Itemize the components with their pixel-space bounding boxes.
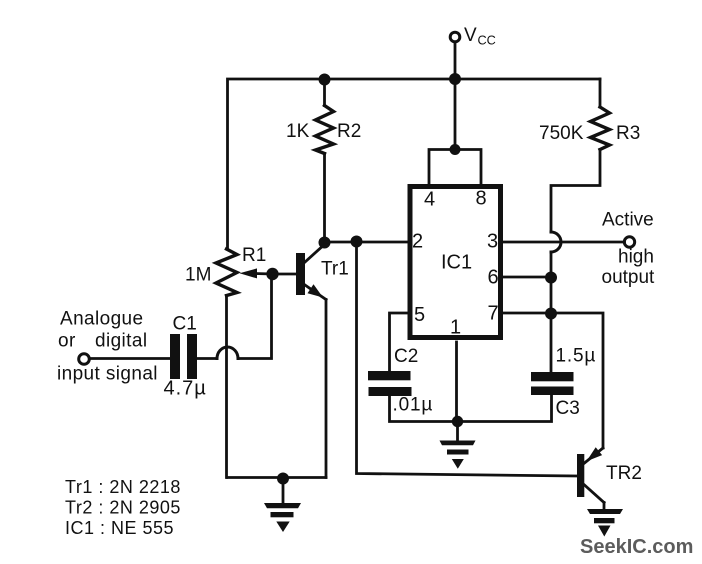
svg-text:V: V <box>464 25 477 46</box>
svg-text:C3: C3 <box>556 398 580 419</box>
resistor R3 <box>551 79 610 232</box>
wire: R3 column hop over output wire <box>551 232 561 252</box>
svg-text:750K: 750K <box>539 123 584 144</box>
ground symbol under IC <box>440 422 476 469</box>
node: pin 6 junction <box>545 272 557 284</box>
svg-text:.01µ: .01µ <box>393 395 434 416</box>
svg-text:4.7µ: 4.7µ <box>164 378 207 400</box>
svg-text:1.5µ: 1.5µ <box>556 346 597 367</box>
wire: Vcc terminal to top rail and down to pins 4/8 tie <box>454 43 457 150</box>
wire: pin 7 line continuing to TR2 emitter <box>503 313 603 448</box>
wire: tie bar over IC pins 4 and 8 <box>429 150 481 187</box>
svg-text:Tr1 : 2N 2218: Tr1 : 2N 2218 <box>65 477 181 497</box>
transistor Tr1 <box>273 244 326 478</box>
svg-text:TR2: TR2 <box>606 463 642 484</box>
potentiometer R1 <box>216 249 237 478</box>
svg-text:5: 5 <box>414 304 425 326</box>
svg-text:6: 6 <box>487 267 498 289</box>
svg-text:input signal: input signal <box>57 364 158 385</box>
R1 wiper arrow <box>240 268 273 278</box>
terminal Vcc <box>450 32 460 42</box>
svg-text:7: 7 <box>487 303 498 325</box>
svg-text:Tr1: Tr1 <box>321 259 349 280</box>
node: pin 2 / TR2 base branch junction <box>351 236 363 248</box>
wire: pin 2 line <box>325 241 408 244</box>
svg-text:CC: CC <box>478 34 496 48</box>
svg-text:Active: Active <box>602 210 654 231</box>
svg-text:C1: C1 <box>173 314 197 335</box>
wire: pin 3 output line <box>503 241 625 244</box>
svg-text:output: output <box>602 267 656 288</box>
node: Vcc junction on top rail <box>449 73 461 85</box>
node: wiper / Tr1 base junction <box>266 268 278 280</box>
wire: top Vcc rail and left rail upper segment <box>228 79 601 249</box>
capacitor C1 <box>170 334 197 379</box>
svg-text:1: 1 <box>450 317 461 339</box>
svg-text:Analogue: Analogue <box>60 309 144 330</box>
wire: pin 6 line <box>503 276 551 279</box>
svg-text:digital: digital <box>95 331 147 352</box>
svg-text:Tr2 : 2N 2905: Tr2 : 2N 2905 <box>65 498 181 518</box>
svg-text:R2: R2 <box>337 121 361 142</box>
svg-text:4: 4 <box>424 189 435 211</box>
svg-text:C2: C2 <box>394 346 418 367</box>
wire: bottom emitter ground line <box>228 476 327 479</box>
label: Analogue or digital input signal <box>57 309 158 385</box>
legend: device types <box>65 477 181 538</box>
svg-text:3: 3 <box>487 231 498 253</box>
svg-text:2: 2 <box>412 231 423 253</box>
node: pin 7 junction <box>545 308 557 320</box>
node: pins 4-8 tie junction <box>450 144 461 155</box>
svg-text:1M: 1M <box>185 265 211 286</box>
node: R2 top junction on rail <box>319 74 331 86</box>
wire: branch down to TR2 base <box>357 242 578 477</box>
capacitor C3 <box>531 372 574 395</box>
svg-text:R3: R3 <box>616 123 640 144</box>
label Vcc <box>464 25 496 48</box>
svg-text:or: or <box>58 331 76 352</box>
svg-text:IC1: IC1 <box>441 252 472 274</box>
label: Active high output <box>602 210 656 289</box>
svg-text:high: high <box>618 247 654 268</box>
svg-text:IC1 : NE 555: IC1 : NE 555 <box>65 518 174 538</box>
transistor TR2 <box>577 447 604 502</box>
node: bottom ground junction <box>277 473 289 485</box>
terminal: input <box>79 354 90 365</box>
wire: input signal line with hop over left rail <box>90 274 272 359</box>
wire: ground bus C2 to C3 <box>390 395 552 422</box>
svg-text:SeekIC.com: SeekIC.com <box>580 536 693 558</box>
ground symbol TR2 <box>587 503 623 537</box>
node: ground bus junction <box>452 416 463 427</box>
terminal: output <box>624 237 634 247</box>
ground symbol bottom center <box>264 479 301 533</box>
svg-text:8: 8 <box>475 188 486 210</box>
svg-text:R1: R1 <box>242 245 266 266</box>
capacitor C2 <box>368 371 412 396</box>
svg-text:1K: 1K <box>286 121 310 142</box>
node: Tr1 collector / R2 junction <box>319 237 331 249</box>
wire: pin 5 line down to C2 <box>390 313 408 371</box>
IC1 NE555 box <box>410 187 501 338</box>
wire: pin 1 down to ground node <box>455 342 458 422</box>
wire: R3 column down to pin6/pin7/C3 <box>550 252 553 372</box>
resistor R2 <box>316 79 334 242</box>
